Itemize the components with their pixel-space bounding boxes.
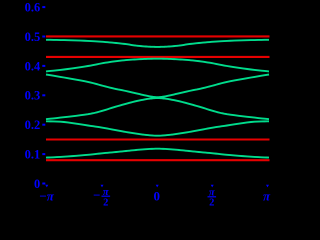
svg-text:2: 2 — [209, 197, 214, 208]
x-axis tick at x=212.2 — [211, 185, 214, 188]
svg-text:0.5: 0.5 — [25, 30, 41, 44]
svg-text:−π: −π — [39, 188, 54, 203]
x-axis label pi/2 fraction bar — [208, 196, 217, 197]
y-axis tick 0.6 — [42, 6, 45, 8]
red flat line at 0.15 — [46, 138, 270, 140]
svg-text:0.4: 0.4 — [25, 59, 41, 73]
svg-text:0.6: 0.6 — [25, 1, 41, 15]
red flat line at 0.08 — [46, 159, 270, 161]
x-axis label -pi/2 fraction bar — [102, 196, 111, 197]
y-axis tick 0.3 — [42, 94, 45, 96]
y-axis tick 0 — [42, 183, 45, 185]
green band D-lower (above red 0.15 line) — [46, 121, 269, 135]
svg-text:0: 0 — [153, 188, 160, 203]
green band A (below red 0.5 line) — [46, 40, 269, 47]
green band E (between red 0.15 and 0.08 lines) — [46, 149, 269, 158]
x-axis tick at x=157.2 — [156, 185, 159, 188]
svg-text:0.3: 0.3 — [25, 89, 41, 103]
x-axis tick at x=267.5 — [266, 185, 269, 188]
svg-text:0.2: 0.2 — [25, 118, 41, 132]
red flat line at 0.43 — [46, 56, 270, 58]
y-axis tick 0.5 — [42, 36, 45, 38]
y-axis tick 0.4 — [42, 65, 45, 67]
red flat line at 0.5 — [46, 35, 270, 37]
svg-text:2: 2 — [103, 198, 108, 209]
x-axis tick at x=102.0 — [101, 185, 104, 188]
y-axis tick 0.2 — [42, 124, 45, 126]
y-axis tick 0.1 — [42, 153, 45, 155]
svg-text:−: − — [93, 187, 100, 202]
green band B (touches red 0.43 line at center) — [46, 59, 269, 72]
svg-text:π: π — [263, 188, 271, 203]
green band D-upper (lower branch of middle crossing) — [46, 98, 269, 119]
svg-text:0.1: 0.1 — [25, 148, 41, 162]
x-axis tick at x=46.8 — [45, 185, 48, 188]
green band C (upper branch of middle crossing) — [46, 75, 269, 98]
